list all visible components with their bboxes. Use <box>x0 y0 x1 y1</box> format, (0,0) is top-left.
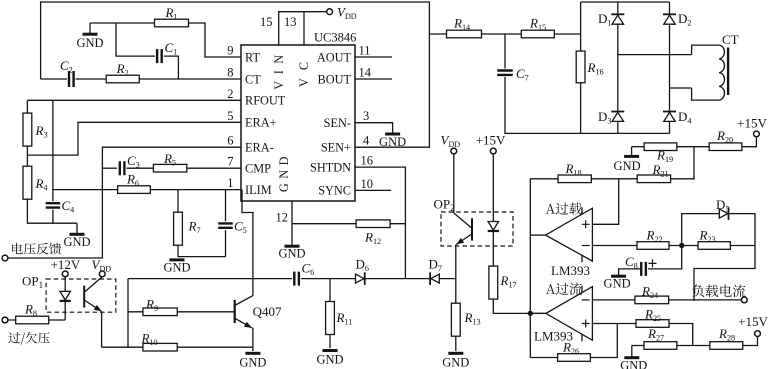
label voltage feedback 电压反馈 <box>12 243 61 255</box>
wire R26 up to plus input <box>590 324 617 358</box>
terminal +12V <box>62 271 68 277</box>
resistor R16 <box>576 51 585 83</box>
svg-text:AOUT: AOUT <box>317 50 352 64</box>
svg-text:RT: RT <box>245 50 260 64</box>
optocoupler OP2 dashed box <box>441 212 513 246</box>
resistor R24 <box>635 296 669 304</box>
svg-text:BOUT: BOUT <box>318 72 352 86</box>
terminal VDD above OP2 <box>451 148 457 154</box>
wire C6 to D6 <box>301 278 356 280</box>
wire GND pin 12 drop <box>291 201 293 245</box>
wire comparator 2 output to bus <box>530 312 546 314</box>
wire feedback up to ERA- pin 6 <box>8 147 241 258</box>
svg-text:GND: GND <box>442 355 469 369</box>
ground under Q407 <box>245 352 260 355</box>
svg-text:SHTDN: SHTDN <box>310 160 351 174</box>
resistor R11 <box>326 302 335 335</box>
svg-text:GND: GND <box>614 159 641 173</box>
resistor R13 <box>451 303 460 336</box>
diode D1 <box>612 15 624 24</box>
wire ground to R19 <box>632 146 645 148</box>
diode D5 <box>719 209 728 218</box>
ground pin 3 <box>385 133 400 136</box>
wire bridge inner column <box>617 2 619 133</box>
wire R14-R15 row from SEN+ column to bridge <box>429 33 580 35</box>
wire R25 to R27-R28 junction <box>669 324 693 346</box>
svg-text:+15V: +15V <box>738 314 768 329</box>
ground under R7 <box>170 258 185 261</box>
wire bridge left edge lower <box>580 83 582 134</box>
svg-text:SEN+: SEN+ <box>321 141 351 155</box>
wire C8 to ground <box>619 269 642 275</box>
svg-text:SYNC: SYNC <box>318 184 351 198</box>
wire bridge right edge <box>669 2 671 133</box>
wire +15V to OP2 LED <box>492 154 494 222</box>
wire bridge left midpoint to CT <box>618 54 692 56</box>
svg-text:CT: CT <box>245 72 261 86</box>
diode D4 <box>664 112 676 121</box>
wire VDD to OP2 phototransistor collector <box>453 154 455 213</box>
resistor R12 <box>356 220 390 228</box>
label load current 负载电流 <box>692 284 745 297</box>
svg-text:GND: GND <box>63 235 90 249</box>
wire D6 to D7 <box>365 278 430 280</box>
terminal VDD above OP1 <box>99 271 105 277</box>
ground pin 12 <box>285 245 300 248</box>
wire C6 row from bus <box>128 278 292 280</box>
wire C7 bottom to bridge bottom edge <box>505 77 581 133</box>
wire bridge bottom edge <box>581 132 670 134</box>
diode D2 <box>664 15 676 24</box>
ground near R1 <box>83 33 98 36</box>
wire RFOUT pin2 row <box>27 99 241 101</box>
resistor R4 <box>23 166 32 199</box>
svg-text:14: 14 <box>359 66 372 80</box>
svg-text:CT: CT <box>722 32 739 47</box>
wire VREF column to C4 <box>52 100 54 201</box>
resistor R15 <box>521 30 554 38</box>
resistor R22 <box>637 242 669 250</box>
wire C1 to CT row <box>164 56 179 79</box>
capacitor C7 <box>497 71 513 75</box>
wire to ground near R1 <box>89 23 91 33</box>
wire down to C7 <box>504 34 506 69</box>
wire bus bottom to R26 <box>530 357 557 359</box>
wire R3-R4 junction to ERA+ pin 5 <box>27 122 241 155</box>
wire C3 through R5 to CMP pin 7 <box>127 167 242 169</box>
svg-text:UC3846: UC3846 <box>314 31 356 45</box>
current transformer CT winding <box>692 45 720 55</box>
wire R3 to R4 <box>26 146 28 165</box>
svg-text:1: 1 <box>227 176 233 190</box>
resistor R18 <box>558 175 591 183</box>
wire D5 and R23 right side down to load current line <box>694 214 755 301</box>
wire comparator 1 minus input to R22 <box>592 245 637 247</box>
svg-text:9: 9 <box>227 44 233 58</box>
svg-text:ERA+: ERA+ <box>245 116 277 130</box>
svg-text:4: 4 <box>363 134 370 148</box>
ground under C4 <box>70 233 85 236</box>
svg-text:10: 10 <box>361 177 374 191</box>
op-amp comparator A-overcurrent LM393 <box>546 287 593 341</box>
svg-text:13: 13 <box>284 15 297 29</box>
svg-text:GND: GND <box>379 135 406 149</box>
label over/under voltage 过/欠压 <box>8 332 49 345</box>
capacitor C6 <box>294 272 299 286</box>
terminal +15V right lower <box>755 331 761 337</box>
wire R17 bottom to comparator outputs <box>493 300 546 314</box>
wire R13 to ground <box>455 336 457 351</box>
wire OP2 emitter down to D7 node <box>455 245 457 279</box>
wire bridge left edge upper <box>580 2 582 51</box>
wire pin15 VIN and pin13 VC to VDD rail <box>279 12 327 45</box>
wire Q407 emitter to ground <box>252 328 254 351</box>
resistor R10 <box>143 343 177 351</box>
svg-text:+15V: +15V <box>737 116 767 131</box>
capacitor C3 <box>120 161 125 175</box>
wire R11 to ground <box>329 335 331 349</box>
wire BOUT pin 14 stub <box>355 78 392 80</box>
wire to ground under C4 <box>76 223 78 233</box>
transistor Q407 <box>234 300 236 323</box>
svg-text:2: 2 <box>227 87 233 101</box>
wire bus top to R18 <box>530 178 558 180</box>
wire R12 row from GND pin to SHTDN column <box>292 223 405 225</box>
wire AOUT pin 11 stub <box>355 56 392 58</box>
resistor R20 <box>709 143 742 151</box>
svg-text:7: 7 <box>227 155 233 169</box>
wire R27 to R28 <box>677 345 710 347</box>
wire R10 row: OP1 emitter to Q407 emitter <box>102 346 253 348</box>
wire R1 row to RT pin 9 <box>90 23 241 57</box>
terminal load current <box>741 297 747 303</box>
wire SYNC pin 10 stub <box>355 189 391 191</box>
wire R8 row <box>8 319 65 321</box>
op-amp comparator A-overload LM393 <box>546 208 593 261</box>
wire bus up to C6 row <box>127 279 129 348</box>
ground under R13 <box>448 352 463 355</box>
resistor R3 <box>23 113 32 146</box>
wire D7 to OP2 emitter node <box>439 278 456 280</box>
svg-text:16: 16 <box>361 154 374 168</box>
svg-text:GND: GND <box>163 260 190 274</box>
LED inside OP1 <box>60 291 70 300</box>
resistor R27 <box>644 342 677 350</box>
svg-text:ILIM: ILIM <box>245 183 272 197</box>
wire down to C5 <box>225 190 227 222</box>
diode D3 <box>612 112 624 121</box>
wire node to R13 <box>455 279 457 303</box>
resistor R9 <box>143 308 177 316</box>
wire R18 to R21 <box>591 178 637 180</box>
wire big loop: CT row left edge, top edge, down to SEN+ pin 4 <box>41 2 430 147</box>
wire R6 row down to R7 <box>177 190 179 213</box>
optocoupler OP1 dashed box <box>46 279 116 312</box>
terminal +15V above OP2 <box>490 148 496 154</box>
wire output bus vertical <box>529 179 531 358</box>
ground under R11 <box>323 349 338 352</box>
resistor R5 <box>153 164 186 172</box>
wire CT row to C2 <box>41 78 67 80</box>
resistor R17 <box>489 266 498 299</box>
diode D6 <box>356 274 365 283</box>
label A overload A过载 <box>546 203 582 215</box>
wire SEN- pin 3 to ground <box>355 123 393 133</box>
wire RFOUT to R3 <box>26 100 28 113</box>
resistor R26 <box>558 354 591 362</box>
junction R22 R23 C8 <box>679 243 684 248</box>
svg-text:GND: GND <box>76 36 103 50</box>
resistor R2 <box>106 75 139 83</box>
label C8 polarity + <box>649 259 657 267</box>
wire junction R1 row down to C1 <box>116 23 155 56</box>
LED inside OP2 <box>488 222 499 231</box>
svg-text:CMP: CMP <box>245 162 271 176</box>
wire C4 bottom <box>52 210 54 224</box>
svg-text:ERA-: ERA- <box>245 141 274 155</box>
resistor R28 <box>710 342 743 350</box>
ground near R27 <box>624 356 639 359</box>
label A overcurrent A过流 <box>546 283 582 296</box>
resistor R25 <box>636 320 669 328</box>
wire R21 up to R19-R20 junction <box>671 147 694 179</box>
resistor R8 <box>16 316 49 324</box>
resistor R6 <box>118 186 151 194</box>
wire junction down to C8 <box>648 246 682 269</box>
wire comparator 2 plus input to R25 <box>592 323 636 325</box>
svg-text:VIN: VIN <box>272 48 286 89</box>
wire C2 through R2 to CT pin 8 <box>76 78 241 80</box>
wire bridge top edge <box>581 1 670 3</box>
wire OP1 LED cathode down to R8 row <box>64 302 66 321</box>
ground near C8 <box>611 275 626 278</box>
wire R4 bottom row <box>27 200 77 223</box>
capacitor C5 <box>218 223 233 227</box>
wire down to comparator 1 plus input <box>592 179 618 225</box>
wire C5 bottom <box>225 230 227 257</box>
wire R24 to load current terminal <box>669 299 742 301</box>
wire R23 right <box>730 245 755 247</box>
wire R19 to R20 <box>677 146 709 148</box>
wire ground drop R19 <box>631 147 633 156</box>
wire SHTDN pin 16 down to D6-D7 row <box>355 167 405 279</box>
resistor R1 <box>155 19 189 27</box>
resistor R19 <box>644 143 677 151</box>
wire ground drop R27 <box>631 346 633 357</box>
wire OP2 LED to R17 <box>492 232 494 266</box>
wire ILIM jog down to Q407 collector crossing C6 row <box>242 190 253 296</box>
wire comparator 2 minus input to R24 <box>592 299 635 301</box>
terminal VDD top <box>327 9 333 15</box>
ground near R19 <box>624 155 639 158</box>
svg-text:8: 8 <box>227 66 233 80</box>
wire R20 to +15V <box>742 137 757 147</box>
svg-text:12: 12 <box>276 211 289 225</box>
svg-text:3: 3 <box>363 109 369 123</box>
svg-text:15: 15 <box>260 15 273 29</box>
svg-text:Q407: Q407 <box>253 304 282 319</box>
svg-text:LM393: LM393 <box>551 263 590 278</box>
svg-text:6: 6 <box>227 134 233 148</box>
wire CMP row from ERA- column to C3 <box>102 167 117 169</box>
wire R9 row to Q407 base <box>128 311 234 313</box>
svg-text:5: 5 <box>227 109 233 123</box>
wire +12V to OP1 LED <box>64 277 66 292</box>
capacitor C2 <box>69 71 74 87</box>
svg-text:GND: GND <box>316 353 343 367</box>
svg-text:GND: GND <box>278 247 305 261</box>
svg-text:+15V: +15V <box>476 133 506 148</box>
op-amp U1 UC3846 PWM controller body <box>241 45 355 201</box>
wire R22 to R23 <box>669 245 698 247</box>
phototransistor OP2 <box>471 218 473 240</box>
terminal +15V right upper <box>754 131 760 137</box>
resistor R23 <box>698 242 730 250</box>
svg-text:GND: GND <box>277 152 291 192</box>
diode D7 <box>431 274 440 283</box>
capacitor C4 <box>46 203 61 207</box>
wire junction up to D5 <box>682 214 719 246</box>
wire ground to R27 <box>632 345 644 347</box>
capacitor C1 <box>157 49 162 63</box>
wire R28 to +15V lower <box>743 337 758 346</box>
svg-text:GND: GND <box>604 277 631 291</box>
wire ILIM row from VREF column through R6 <box>53 189 241 191</box>
phototransistor OP1 <box>83 286 85 308</box>
terminal over/under voltage input <box>2 317 8 323</box>
svg-text:GND: GND <box>620 359 647 369</box>
resistor R7 <box>174 212 183 245</box>
terminal voltage feedback <box>2 255 8 261</box>
resistor R14 <box>447 30 482 38</box>
wire bridge right midpoint to CT <box>670 87 692 89</box>
wire VC vertical <box>303 12 305 45</box>
svg-text:GND: GND <box>239 355 266 369</box>
wire comparator 1 output to bus <box>530 234 545 236</box>
svg-text:RFOUT: RFOUT <box>245 94 286 108</box>
svg-text:SEN-: SEN- <box>324 116 351 130</box>
wire down to R11 <box>329 279 331 301</box>
wire OP1 emitter down <box>101 311 103 347</box>
resistor R21 <box>637 175 670 183</box>
junction bus comparator 2 output <box>528 311 533 316</box>
wire R7 bottom row to C5 <box>178 245 226 257</box>
capacitor C8 <box>641 262 646 276</box>
svg-text:11: 11 <box>359 44 371 58</box>
svg-text:VC: VC <box>297 54 311 87</box>
svg-text:+12V: +12V <box>51 257 81 272</box>
